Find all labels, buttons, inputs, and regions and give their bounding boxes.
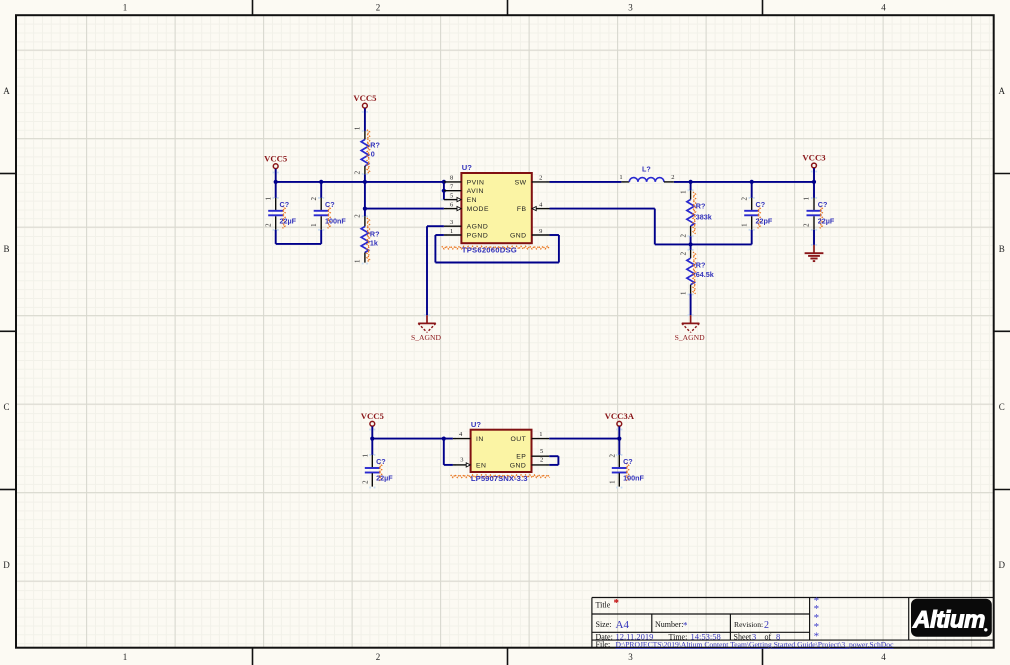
- U1 pin 6 MODE stub: [444, 208, 458, 210]
- svg-text:C?: C?: [756, 200, 766, 209]
- svg-text:1: 1: [679, 190, 687, 194]
- svg-text:1: 1: [310, 223, 318, 227]
- svg-text:22pF: 22pF: [756, 216, 773, 225]
- svg-text:1: 1: [354, 259, 362, 263]
- resistor R1 pin numbers: [354, 126, 362, 174]
- title block blue stars: [814, 595, 820, 642]
- svg-text:*: *: [814, 630, 820, 642]
- svg-text:22µF: 22µF: [376, 473, 393, 482]
- svg-text:VCC5: VCC5: [361, 411, 385, 421]
- U1 left pin names: [467, 179, 489, 239]
- capacitor C? 100nF compile squiggle: [328, 206, 331, 228]
- svg-text:3: 3: [460, 457, 463, 464]
- wire PGND pin1 to GND pin9 loop: [435, 235, 559, 263]
- power port VCC5 (LDO input): [361, 411, 385, 429]
- power ground S_AGND left: [411, 315, 441, 342]
- svg-text:LP5907SNX-3.3: LP5907SNX-3.3: [471, 474, 528, 483]
- resistor R4 64.5k: [687, 244, 696, 315]
- title block Title row: [596, 597, 620, 610]
- capacitor C? 22uF compile squiggle: [820, 206, 823, 228]
- svg-text:*: *: [683, 621, 688, 631]
- junction output at C 22pF: [750, 180, 754, 184]
- power port VCC3A: [605, 411, 635, 429]
- capacitor C? 22uF pin numbers: [264, 196, 272, 226]
- wire VCC5 to IN: [372, 426, 453, 438]
- svg-text:2: 2: [764, 620, 769, 631]
- svg-text:R?: R?: [696, 261, 706, 270]
- capacitor C5 pin numbers: [362, 453, 370, 483]
- capacitor C? 100nF plates: [314, 210, 329, 212]
- capacitor C? 22pF plates: [744, 210, 759, 212]
- resistor R2 1k: [361, 209, 369, 263]
- svg-text:64.5k: 64.5k: [696, 270, 714, 279]
- svg-text:AGND: AGND: [467, 224, 489, 231]
- zone labels bottom: [123, 652, 887, 662]
- svg-text:VCC3: VCC3: [802, 153, 826, 163]
- title block Size row: [596, 619, 770, 631]
- wire OUT to VCC3A: [549, 438, 619, 440]
- svg-text:R?: R?: [370, 141, 380, 150]
- power port VCC5 (input rail, left): [264, 153, 288, 172]
- svg-text:C?: C?: [376, 457, 386, 466]
- svg-text:AVIN: AVIN: [467, 188, 484, 195]
- op-amp U1 TPS62060DSG body: [461, 173, 531, 243]
- svg-text:GND: GND: [510, 233, 527, 240]
- capacitor C4 22uF output: [803, 182, 835, 245]
- svg-text:0: 0: [371, 150, 375, 159]
- power ground S_AGND right: [675, 315, 705, 342]
- svg-text:TPS62060DSG: TPS62060DSG: [462, 246, 517, 255]
- capacitor C? 22uF pin numbers: [803, 196, 811, 226]
- wire EN tie down: [444, 439, 453, 465]
- svg-text:2: 2: [376, 652, 381, 662]
- svg-text:1k: 1k: [370, 238, 378, 247]
- U2 compile squiggle: [451, 475, 550, 478]
- svg-text:Altium: Altium: [912, 607, 985, 634]
- wire AGND pin 3 to S_AGND drop: [427, 226, 444, 315]
- svg-text:2: 2: [803, 223, 811, 227]
- svg-text:1: 1: [354, 126, 362, 130]
- svg-text:2: 2: [740, 196, 748, 200]
- svg-text:MODE: MODE: [467, 206, 489, 213]
- svg-text:Revision:: Revision:: [734, 620, 763, 629]
- svg-text:R?: R?: [370, 230, 380, 239]
- svg-text:1: 1: [803, 196, 811, 200]
- U1 left pin numbers 8 7 5 6 3 1: [450, 175, 454, 235]
- U2 pin numbers: [459, 431, 543, 464]
- svg-text:C?: C?: [623, 457, 633, 466]
- svg-text:4: 4: [881, 652, 886, 662]
- capacitor C? 22pF pin leads: [751, 198, 753, 210]
- U2 pin names: [476, 436, 526, 469]
- svg-text:GND: GND: [510, 462, 527, 469]
- svg-text:9: 9: [539, 228, 542, 235]
- svg-text:A4: A4: [616, 619, 630, 631]
- svg-text:OUT: OUT: [510, 436, 526, 443]
- svg-text:2: 2: [264, 223, 272, 227]
- capacitor C2 100nF input: [310, 182, 346, 244]
- svg-text:VCC5: VCC5: [264, 153, 288, 163]
- U2 pin 3 EN stub: [453, 464, 467, 466]
- wire VCC5 to input bus: [275, 169, 277, 182]
- svg-text:2: 2: [679, 233, 687, 237]
- svg-text:3: 3: [628, 652, 633, 662]
- svg-text:2: 2: [310, 196, 318, 200]
- junction output at VCC3: [812, 180, 816, 184]
- svg-text:C: C: [3, 402, 9, 412]
- capacitor C3 22pF: [740, 182, 772, 245]
- U2 pin 4 IN stub: [453, 438, 471, 440]
- svg-text:3: 3: [628, 3, 633, 13]
- svg-text:5: 5: [540, 448, 543, 455]
- inductor L1: [621, 178, 674, 182]
- capacitor C? 22uF plates: [268, 210, 283, 212]
- capacitor C6 pin numbers: [609, 453, 617, 483]
- wire SW pin2 to inductor: [550, 181, 622, 183]
- svg-text:L?: L?: [642, 165, 651, 174]
- U1 pin 3 AGND stub: [444, 225, 462, 227]
- U1 pin 1 PGND stub: [444, 234, 462, 236]
- capacitor C? 22pF compile squiggle: [758, 206, 761, 228]
- svg-text:1: 1: [619, 174, 622, 181]
- junction at pin 7: [442, 189, 446, 193]
- svg-text:2: 2: [679, 251, 687, 255]
- svg-text:100nF: 100nF: [623, 473, 644, 482]
- capacitor C? 22uF compile squiggle: [283, 206, 286, 228]
- svg-text:PVIN: PVIN: [467, 179, 485, 186]
- svg-text:U?: U?: [462, 163, 472, 172]
- wire vertical PVIN-AVIN-EN tie: [443, 182, 445, 200]
- svg-text:C: C: [999, 402, 1005, 412]
- junction bus at C2: [319, 180, 323, 184]
- svg-text:2: 2: [540, 456, 543, 463]
- svg-text:383k: 383k: [696, 212, 712, 221]
- resistor R3 pin numbers: [679, 190, 687, 238]
- svg-text:100nF: 100nF: [325, 216, 346, 225]
- svg-text:R?: R?: [696, 201, 706, 210]
- svg-text:C?: C?: [325, 200, 335, 209]
- wire MODE node to pin 6: [365, 208, 444, 210]
- svg-text:IN: IN: [476, 436, 484, 443]
- svg-text:1: 1: [679, 291, 687, 295]
- wire joining C1 and C2 bottoms: [276, 243, 322, 245]
- zone labels left: [3, 86, 10, 570]
- svg-text:1: 1: [539, 431, 542, 438]
- capacitor C? 22pF pin numbers: [740, 196, 748, 226]
- Altium logo: [911, 599, 992, 637]
- U2 pin 1 OUT stub: [532, 438, 550, 440]
- power port VCC5 (above R? 0): [353, 93, 377, 111]
- svg-text:2: 2: [609, 453, 617, 457]
- svg-text:PGND: PGND: [467, 233, 489, 240]
- title block Date row: [596, 631, 781, 641]
- wire VCC3 drop: [813, 168, 815, 182]
- junction bus at C1: [274, 180, 278, 184]
- wire FB pin4 to divider tap: [550, 209, 752, 245]
- svg-text:VCC3A: VCC3A: [605, 411, 635, 421]
- svg-text:S_AGND: S_AGND: [411, 333, 441, 342]
- capacitor C? 100nF pin leads: [320, 198, 322, 210]
- svg-text:D:\PROJECTS\2019\Altium Conten: D:\PROJECTS\2019\Altium Content Team\Get…: [616, 640, 895, 649]
- zone labels top: [123, 3, 887, 13]
- junction LDO input at C5: [370, 437, 374, 441]
- svg-text:A: A: [999, 86, 1006, 96]
- U1 pin 4 FB stub: [536, 208, 550, 210]
- svg-text:U?: U?: [471, 420, 481, 429]
- junction MODE at R1k: [363, 207, 367, 211]
- op-amp U2 LP5907SNX-3.3 body: [471, 430, 532, 472]
- capacitor C? 22uF pin leads: [813, 198, 815, 210]
- U1 pin 7 AVIN stub: [444, 190, 462, 192]
- svg-text:1: 1: [609, 480, 617, 484]
- svg-text:22µF: 22µF: [280, 216, 297, 225]
- svg-text:A: A: [3, 86, 10, 96]
- U1 right pin numbers 2 4 9: [539, 175, 543, 235]
- resistor R4 pin numbers: [679, 251, 687, 295]
- junction EN tie: [442, 437, 446, 441]
- junction output at R383k: [689, 180, 693, 184]
- junction divider tap: [689, 242, 693, 246]
- svg-text:EP: EP: [516, 454, 526, 461]
- hotspot grid marks (pale blue): [273, 111, 818, 488]
- earth ground below C4: [805, 245, 824, 261]
- capacitor C6 100nF LDO output: [612, 439, 629, 487]
- svg-text:2: 2: [354, 170, 362, 174]
- svg-text:FB: FB: [517, 206, 527, 213]
- svg-text:S_AGND: S_AGND: [675, 333, 705, 342]
- wire R0 bus to MODE node: [364, 182, 366, 209]
- U2 pin 5 EP stub: [532, 455, 550, 457]
- svg-text:D: D: [3, 560, 10, 570]
- svg-text:C?: C?: [280, 200, 290, 209]
- svg-text:C?: C?: [818, 200, 828, 209]
- svg-text:4: 4: [881, 3, 886, 13]
- U1 pin 2 SW stub: [532, 181, 550, 183]
- svg-text:File:: File:: [596, 640, 611, 649]
- capacitor C? 22uF pin leads: [275, 198, 277, 210]
- svg-text:B: B: [999, 244, 1005, 254]
- U1 pin 9 GND stub: [532, 234, 550, 236]
- U1 pin 5 EN stub: [444, 199, 458, 201]
- svg-text:Title: Title: [596, 601, 611, 610]
- junction VCC3A at C6: [617, 437, 621, 441]
- svg-text:1: 1: [740, 223, 748, 227]
- wire EP to GND loop: [549, 456, 558, 465]
- power port VCC3: [802, 153, 826, 171]
- svg-text:EN: EN: [467, 197, 477, 204]
- U1 pin 8 PVIN stub: [444, 181, 462, 183]
- U2 pin 2 GND stub: [532, 464, 550, 466]
- title block File row: [596, 640, 895, 649]
- svg-text:8: 8: [450, 175, 453, 182]
- svg-text:Size:: Size:: [596, 620, 612, 629]
- resistor R3 383k: [687, 182, 696, 245]
- svg-text:D: D: [999, 560, 1006, 570]
- junction bus at pin 8: [442, 180, 446, 184]
- U1 compile squiggle: [442, 246, 550, 249]
- wire input bus to pin PVIN: [276, 181, 444, 183]
- capacitor C1 22uF input: [264, 182, 296, 244]
- svg-text:3: 3: [450, 219, 453, 226]
- svg-text:1: 1: [264, 196, 272, 200]
- capacitor C5 22uF LDO input: [365, 439, 382, 487]
- svg-text:B: B: [3, 244, 9, 254]
- svg-text:1: 1: [123, 652, 128, 662]
- resistor R1 0 ohm: [361, 108, 369, 182]
- svg-text:*: *: [614, 597, 620, 609]
- junction bus at R0: [363, 180, 367, 184]
- svg-text:2: 2: [539, 175, 542, 182]
- wire inductor to VCC3 node: [674, 181, 814, 183]
- svg-text:VCC5: VCC5: [353, 93, 377, 103]
- resistor R2 pin numbers: [354, 214, 362, 263]
- svg-text:22µF: 22µF: [818, 216, 835, 225]
- zone labels right: [999, 86, 1006, 570]
- capacitor C? 100nF pin numbers: [310, 196, 318, 226]
- inductor L1 pin numbers: [619, 174, 674, 181]
- title block outline: [592, 598, 994, 648]
- svg-text:Number:: Number:: [655, 620, 683, 629]
- svg-text:2: 2: [671, 174, 674, 181]
- wire VCC3A drop: [618, 426, 620, 438]
- svg-text:5: 5: [450, 192, 453, 199]
- svg-text:EN: EN: [476, 462, 486, 469]
- svg-text:1: 1: [450, 228, 453, 235]
- svg-text:2: 2: [376, 3, 381, 13]
- svg-text:SW: SW: [515, 179, 527, 186]
- capacitor C? 22uF plates: [807, 210, 822, 212]
- svg-text:1: 1: [123, 3, 128, 13]
- U1 right pin names: [510, 179, 527, 239]
- svg-text:2: 2: [362, 480, 370, 484]
- svg-text:1: 1: [362, 453, 370, 457]
- svg-text:2: 2: [354, 214, 362, 218]
